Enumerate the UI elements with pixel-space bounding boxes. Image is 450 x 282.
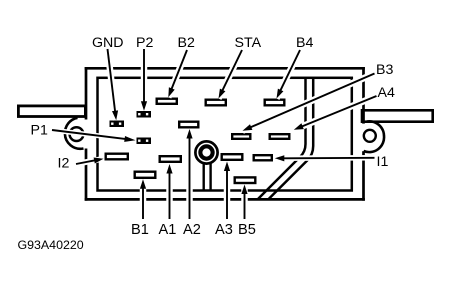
right ear hole ring	[364, 130, 376, 142]
inner body rectangle	[98, 78, 352, 191]
leader A1	[166, 164, 172, 219]
svg-text:A1: A1	[159, 222, 177, 238]
leader B3	[243, 74, 375, 131]
left ear hole ring	[70, 127, 84, 141]
right mounting tab	[362, 110, 433, 121]
outer body top edge	[85, 67, 365, 70]
leader P2	[141, 49, 147, 111]
keyway channel line 1	[258, 78, 305, 199]
center boss inner annulus	[200, 146, 212, 158]
pin GND (filled)	[110, 121, 125, 128]
leader STA	[219, 50, 243, 99]
svg-text:P1: P1	[31, 123, 48, 139]
leader B1	[140, 179, 146, 219]
svg-text:B5: B5	[238, 222, 256, 238]
svg-text:GND: GND	[92, 35, 124, 51]
pin A4	[270, 134, 290, 139]
svg-text:I2: I2	[58, 156, 70, 172]
leader B2	[168, 50, 187, 97]
leader I1	[275, 155, 375, 161]
outer body right edge lower	[362, 151, 365, 201]
center boss stem left line	[202, 163, 204, 190]
pin B3	[232, 134, 250, 139]
svg-text:B4: B4	[296, 35, 313, 51]
leader A4	[294, 96, 377, 130]
leader B5	[241, 185, 247, 220]
outer body right edge upper	[362, 67, 365, 124]
svg-text:A3: A3	[215, 222, 233, 238]
pin A3	[222, 154, 243, 160]
pin A1	[160, 156, 181, 162]
pin A2	[179, 122, 198, 128]
leader I2	[76, 158, 104, 165]
pin B2	[157, 99, 177, 104]
right mounting ear arc	[364, 121, 384, 152]
outer body bottom edge	[85, 198, 365, 201]
svg-text:B3: B3	[376, 62, 393, 78]
svg-text:P2: P2	[136, 35, 153, 51]
svg-text:I1: I1	[377, 154, 389, 170]
center boss outer circle	[195, 141, 217, 163]
leader A3	[224, 162, 230, 220]
outer body left edge lower	[85, 149, 88, 201]
pin I2	[106, 154, 128, 160]
svg-text:B2: B2	[178, 35, 195, 51]
center boss stem right line	[209, 163, 211, 190]
left mounting tab	[18, 106, 85, 117]
pin P1 (filled)	[137, 138, 152, 145]
keyway channel line 2	[269, 78, 313, 199]
left mounting ear arc	[65, 118, 84, 149]
leader P1	[52, 130, 136, 142]
leader A2	[186, 129, 192, 219]
svg-text:B1: B1	[131, 222, 149, 238]
svg-text:G93A40220: G93A40220	[18, 238, 84, 252]
svg-text:STA: STA	[235, 35, 262, 51]
leader B4	[277, 50, 301, 99]
leader GND	[108, 49, 119, 120]
pin B4	[265, 100, 285, 106]
pin P2 (filled)	[137, 111, 152, 118]
pin B5	[235, 177, 256, 183]
pin I1	[254, 155, 272, 160]
pin STA	[206, 100, 226, 106]
outer body left edge upper	[85, 67, 88, 120]
svg-text:A2: A2	[183, 222, 201, 238]
svg-text:A4: A4	[378, 85, 395, 101]
pin B1	[135, 172, 156, 178]
